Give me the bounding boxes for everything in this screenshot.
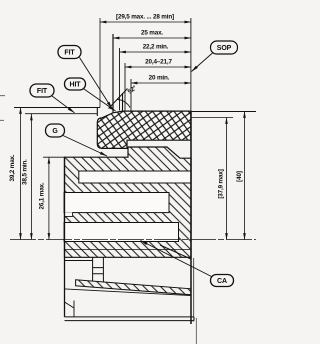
right extension lines bbox=[191, 111, 256, 113]
52 deg arc bbox=[118, 100, 131, 108]
callout CA bbox=[211, 275, 234, 287]
right witness line bbox=[190, 18, 192, 111]
bottom axis vertical bbox=[195, 318, 197, 344]
svg-text:FIT: FIT bbox=[37, 88, 48, 95]
dimension [40] (vertical) bbox=[244, 112, 246, 240]
left edge break mark bbox=[65, 301, 75, 317]
sloped thin lower band bbox=[76, 280, 191, 295]
left body edge bbox=[64, 157, 66, 317]
groove white cutout W1 bbox=[79, 171, 191, 183]
bottom plate lines bbox=[65, 317, 195, 321]
band F bottom left ledge bbox=[65, 260, 93, 262]
left margin scan marks bbox=[0, 96, 5, 121]
svg-text:G: G bbox=[52, 128, 58, 135]
extension line for 20,4 dim bbox=[124, 63, 126, 111]
datum line bbox=[10, 239, 256, 241]
lower leaf under-line bbox=[65, 289, 191, 296]
column bottom diagonal cut bbox=[160, 245, 191, 259]
svg-text:[40]: [40] bbox=[236, 171, 243, 182]
dimension 39,2 max (vertical) bbox=[20, 108, 22, 240]
groove white cutout W2 bbox=[64, 193, 169, 213]
band E left step notch bbox=[64, 212, 73, 216]
svg-text:39,2 max.: 39,2 max. bbox=[9, 154, 16, 181]
callout FIT lower bbox=[30, 84, 54, 97]
dimension 20 min bbox=[131, 82, 191, 84]
rim flange lip vertical bbox=[122, 93, 124, 111]
callout SOP bbox=[211, 41, 238, 54]
svg-text:[29,5 max. ... 28 min]: [29,5 max. ... 28 min] bbox=[116, 14, 174, 21]
groove white cutout W3 bbox=[64, 223, 178, 242]
dimension [37,9 max] (vertical) bbox=[226, 118, 228, 240]
tire section (cross-hatch blob) bbox=[97, 111, 191, 148]
callout HIT bbox=[65, 78, 86, 90]
svg-text:HIT: HIT bbox=[70, 82, 82, 89]
extension line y=113.7 (38,5 dim / bead ledge) bbox=[25, 113, 97, 115]
extension line for 22,2 dim bbox=[119, 48, 121, 111]
lower band mid line bbox=[65, 249, 192, 251]
svg-text:26,1 max.: 26,1 max. bbox=[39, 182, 46, 209]
svg-text:FIT: FIT bbox=[64, 50, 75, 57]
extension line y=107.5 (39,2 dim / rim top) bbox=[14, 107, 100, 109]
lower tab / channel bbox=[93, 257, 104, 282]
dimension 20,4-21,7 bbox=[125, 66, 191, 68]
svg-text:CA: CA bbox=[217, 278, 227, 285]
rim body (diagonal hatch) bbox=[65, 147, 192, 257]
extension line for 29,5 dim bbox=[99, 18, 101, 108]
extension line for 25 dim bbox=[112, 34, 114, 113]
dimension 38,5 min (vertical) bbox=[30, 114, 32, 240]
dimension 26,1 max (vertical) bbox=[48, 157, 50, 239]
right body edge bbox=[190, 111, 192, 324]
svg-text:20 min.: 20 min. bbox=[149, 75, 170, 82]
extension line for 20 min dim bbox=[130, 79, 132, 111]
svg-text:[37,9 max]: [37,9 max] bbox=[218, 169, 225, 198]
svg-text:38,5 min.: 38,5 min. bbox=[22, 159, 29, 185]
callout FIT upper bbox=[58, 46, 81, 59]
dimension [29,5 max ... 28 min] bbox=[100, 21, 191, 23]
rim flange vertical left bbox=[96, 108, 98, 117]
right edge second line bbox=[193, 258, 195, 322]
dimension 22,2 min bbox=[120, 51, 191, 53]
52 deg slope line bbox=[109, 89, 128, 109]
svg-text:52°: 52° bbox=[126, 83, 139, 95]
svg-text:SOP: SOP bbox=[217, 45, 232, 52]
svg-text:25 max.: 25 max. bbox=[141, 30, 163, 37]
extension line y=157.2 (26,1 dim) bbox=[43, 156, 65, 158]
svg-text:20,4–21,7: 20,4–21,7 bbox=[145, 59, 172, 66]
callout G bbox=[46, 124, 65, 137]
dimension 25 max bbox=[113, 37, 191, 39]
svg-text:22,2 min.: 22,2 min. bbox=[143, 44, 169, 51]
